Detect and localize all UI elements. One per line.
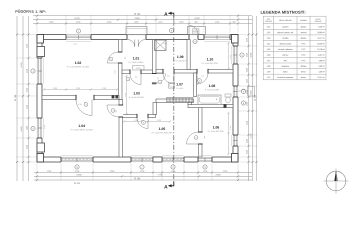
svg-text:P ± 0,000 DLAŽBA: P ± 0,000 DLAŽBA <box>128 61 144 64</box>
entrance opening top wall <box>127 34 146 40</box>
svg-text:PVC: PVC <box>302 48 307 51</box>
svg-text:obývací pokoj s KK: obývací pokoj s KK <box>277 31 294 34</box>
window bottom wall room 1.05 right <box>162 156 184 162</box>
svg-text:1.09: 1.09 <box>177 55 184 59</box>
svg-text:2 600: 2 600 <box>215 21 220 24</box>
extension lines bottom <box>37 164 238 181</box>
svg-text:P ± 0,000 PVC POD.: P ± 0,000 PVC POD. <box>208 130 225 133</box>
svg-text:8 100: 8 100 <box>74 17 80 20</box>
svg-text:20 100: 20 100 <box>134 177 141 180</box>
north compass <box>326 171 346 191</box>
right dimension line 3 <box>256 16 258 181</box>
svg-text:1 800: 1 800 <box>246 53 249 57</box>
top dimension line 3 <box>33 22 252 24</box>
toilet <box>225 94 231 97</box>
svg-text:1.01: 1.01 <box>133 56 140 60</box>
svg-text:8 200: 8 200 <box>194 17 200 20</box>
interior wall V6 hall jog <box>153 103 157 115</box>
svg-text:13,47 m²: 13,47 m² <box>317 76 325 79</box>
svg-text:4 050: 4 050 <box>250 53 253 58</box>
interior wall H2 hall bottom <box>123 115 156 118</box>
interior wall V4 between 1.07 and 1.08 <box>194 73 197 97</box>
window left wall room 1.02 <box>36 58 42 84</box>
interior wall H5 below 1.07 <box>156 99 194 103</box>
chimney blocks <box>112 95 115 98</box>
interior wall V3 between 1.09 and 1.10 <box>187 40 190 70</box>
svg-text:1.04: 1.04 <box>267 42 271 45</box>
svg-text:3 800: 3 800 <box>134 17 140 20</box>
svg-text:2 350: 2 350 <box>26 44 29 48</box>
inner dimension line room 1.05 <box>124 121 170 123</box>
svg-text:4,06 m²: 4,06 m² <box>318 59 325 62</box>
svg-text:6,32 m²: 6,32 m² <box>318 26 325 29</box>
svg-text:6 150: 6 150 <box>20 63 23 68</box>
svg-text:3 200: 3 200 <box>75 170 80 173</box>
top dimension line 2 <box>33 19 252 21</box>
svg-text:1: 1 <box>110 58 111 61</box>
hatched shaft room 1.09 <box>155 40 167 50</box>
svg-text:20,30 m²: 20,30 m² <box>317 42 325 45</box>
svg-text:obývací pokoj: obývací pokoj <box>280 42 292 45</box>
window right wall room 1.06 <box>232 135 238 146</box>
svg-text:1: 1 <box>85 103 86 106</box>
exterior unit right wall <box>248 87 255 97</box>
svg-text:1 900: 1 900 <box>134 21 139 24</box>
window right wall room 1.10 <box>232 46 238 64</box>
svg-text:6 600: 6 600 <box>20 127 23 132</box>
door tags <box>109 57 113 61</box>
svg-text:1 500: 1 500 <box>179 21 184 24</box>
svg-text:název místnosti: název místnosti <box>279 19 292 22</box>
svg-text:1.04: 1.04 <box>78 124 85 128</box>
svg-text:P ± 0,000 KERAM. DLAŽBA: P ± 0,000 KERAM. DLAŽBA <box>67 65 90 68</box>
svg-text:7 700: 7 700 <box>157 173 163 176</box>
svg-text:A: A <box>164 12 168 18</box>
window bottom wall room 1.05 left <box>131 156 153 162</box>
svg-text:12 750: 12 750 <box>14 94 17 101</box>
extension lines left <box>16 35 36 163</box>
outer wall right <box>233 35 238 163</box>
door swing into 1.08 <box>197 73 208 84</box>
svg-text:1: 1 <box>127 78 128 81</box>
svg-text:beton: beton <box>301 76 306 79</box>
svg-text:chodba: chodba <box>282 37 289 40</box>
radiator hatch on wall H5 <box>167 98 193 102</box>
svg-text:1.06: 1.06 <box>213 125 220 129</box>
svg-text:1 150: 1 150 <box>158 21 163 24</box>
window bottom wall room 1.06 <box>198 156 212 162</box>
washbasin 1.08 <box>197 77 199 85</box>
entrance porch landing <box>126 27 147 35</box>
svg-text:4,36 m²: 4,36 m² <box>318 70 325 73</box>
interior wall H3 bottom of 1.01 <box>122 70 153 74</box>
interior wall V5b between 1.04 and 1.05 <box>119 100 123 158</box>
svg-text:P -0,010: P -0,010 <box>176 87 183 90</box>
svg-text:P ± 0,000 BET.: P ± 0,000 BET. <box>174 59 186 62</box>
svg-text:1: 1 <box>195 136 196 139</box>
svg-text:1: 1 <box>199 79 200 82</box>
svg-text:1 200: 1 200 <box>26 88 29 92</box>
extension lines right <box>239 35 258 163</box>
svg-text:1.02: 1.02 <box>75 61 82 65</box>
svg-text:1 150: 1 150 <box>246 38 249 42</box>
svg-text:místnosti: místnosti <box>315 20 322 23</box>
svg-text:2 200: 2 200 <box>140 170 145 173</box>
door swing into 1.05 <box>137 118 148 129</box>
outer wall bottom <box>37 157 238 162</box>
left dimension line 1 <box>16 16 18 181</box>
svg-text:P -0,010 DLAŽBA: P -0,010 DLAŽBA <box>205 88 220 91</box>
svg-text:1.06: 1.06 <box>267 54 271 57</box>
window top wall room 1.02 <box>66 34 91 40</box>
svg-text:1.10: 1.10 <box>207 57 214 61</box>
svg-text:1.10: 1.10 <box>267 76 271 79</box>
svg-text:PVC: PVC <box>302 59 307 62</box>
bathtub <box>198 95 221 104</box>
svg-text:20 100: 20 100 <box>134 13 141 16</box>
svg-text:1 100: 1 100 <box>246 90 249 94</box>
svg-text:P ± 0,000 KERAM. DLAŽBA: P ± 0,000 KERAM. DLAŽBA <box>71 128 94 131</box>
window top wall room 1.10 <box>204 34 230 40</box>
entrance double door swing <box>128 40 135 47</box>
window tags <box>76 29 80 33</box>
door swing into room 1.02 <box>108 52 119 63</box>
washbasin 1.07 <box>168 83 174 89</box>
svg-text:1 100: 1 100 <box>246 68 249 72</box>
interior wall V2 right of 1.01 <box>153 40 157 85</box>
svg-text:2 200: 2 200 <box>171 170 176 173</box>
svg-text:3 900: 3 900 <box>215 173 221 176</box>
inner dimension line room 1.10 <box>228 43 230 69</box>
svg-text:LEGENDA MÍSTNOSTÍ:: LEGENDA MÍSTNOSTÍ: <box>260 10 305 15</box>
svg-text:1 400: 1 400 <box>203 170 208 173</box>
svg-text:11,27 m²: 11,27 m² <box>318 54 326 57</box>
svg-text:10,17 m²: 10,17 m² <box>317 37 325 40</box>
svg-text:12 750: 12 750 <box>254 94 257 101</box>
interior wall V7 left of bathtub <box>188 103 192 105</box>
interior wall V1 between 1.02 and 1.01/1.03 <box>119 40 123 100</box>
svg-text:kuchyň s jídelnou: kuchyň s jídelnou <box>278 48 293 51</box>
svg-text:1 100: 1 100 <box>246 150 249 154</box>
svg-text:1 100: 1 100 <box>246 79 249 83</box>
svg-text:1: 1 <box>159 81 160 84</box>
svg-text:28,60 m²: 28,60 m² <box>317 31 325 34</box>
right dimension line 1 <box>248 16 250 181</box>
inner dimension line room 1.02 <box>44 89 117 91</box>
svg-text:zádveří: zádveří <box>282 26 289 29</box>
svg-text:1: 1 <box>112 109 113 112</box>
svg-text:5 100: 5 100 <box>250 134 253 139</box>
svg-text:1.07: 1.07 <box>176 82 183 86</box>
svg-text:3 600: 3 600 <box>250 91 253 96</box>
svg-text:PVC: PVC <box>302 54 307 57</box>
svg-text:P ± 0,000 DLAŽBA: P ± 0,000 DLAŽBA <box>129 96 145 99</box>
terrace door bottom wall room 1.04 <box>61 156 93 162</box>
svg-text:8 500: 8 500 <box>76 173 82 176</box>
left dimension line 3 <box>28 16 30 181</box>
svg-text:3 800: 3 800 <box>110 170 115 173</box>
extension lines top <box>37 15 238 33</box>
svg-text:1.05: 1.05 <box>267 48 271 51</box>
inner dimension line hallway <box>126 76 128 114</box>
svg-text:1.08: 1.08 <box>267 65 271 68</box>
outer wall top <box>37 35 238 40</box>
svg-text:1.07: 1.07 <box>267 59 271 62</box>
svg-text:P ± 0,000 PVC POD.: P ± 0,000 PVC POD. <box>202 62 219 65</box>
inner dimension line room 1.06 <box>228 113 230 154</box>
svg-text:1 900: 1 900 <box>26 145 29 149</box>
svg-text:1.05: 1.05 <box>159 127 166 131</box>
svg-text:2 600: 2 600 <box>223 170 228 173</box>
svg-text:2 500: 2 500 <box>76 21 81 24</box>
svg-text:20 100: 20 100 <box>74 182 80 185</box>
svg-text:900: 900 <box>194 21 197 24</box>
door swing into 1.05 from 1.06 <box>187 132 199 144</box>
bottom dimension line 2 <box>34 175 252 177</box>
svg-text:2 400: 2 400 <box>246 121 249 125</box>
shoe cabinet room 1.01 <box>133 66 145 71</box>
door swing 1.01 to hall <box>130 74 141 85</box>
svg-text:beton: beton <box>301 70 306 73</box>
back door exterior steps <box>188 27 206 35</box>
svg-text:místnosti: místnosti <box>265 20 272 23</box>
svg-text:21,18 m²: 21,18 m² <box>317 48 325 51</box>
svg-text:laminát: laminát <box>300 31 307 34</box>
left wall pier upper <box>37 47 45 57</box>
section line A-A <box>173 18 175 182</box>
svg-text:1.02: 1.02 <box>267 31 271 34</box>
svg-text:2 200: 2 200 <box>26 105 29 109</box>
interior wall H1 between 1.02 and 1.04 <box>42 96 119 100</box>
svg-text:3 600: 3 600 <box>107 21 112 24</box>
door swing into 1.07 <box>163 73 174 84</box>
svg-text:1: 1 <box>143 121 144 124</box>
svg-text:dlažba: dlažba <box>301 26 308 29</box>
bottom wall pier <box>153 157 162 162</box>
svg-text:1.03: 1.03 <box>133 91 140 95</box>
svg-text:1.03: 1.03 <box>267 37 271 40</box>
top dimension line 1 <box>33 15 252 17</box>
window right wall bathroom <box>232 86 238 97</box>
bottom dimension line 1 <box>34 172 252 174</box>
corner piers <box>37 35 44 44</box>
svg-text:2 600: 2 600 <box>26 69 29 73</box>
svg-text:1.01: 1.01 <box>267 26 271 29</box>
legend table grid <box>263 16 326 80</box>
svg-text:800: 800 <box>232 21 235 24</box>
interior wall H4 below rooms 1.09 1.10 <box>156 70 233 74</box>
svg-text:PVC: PVC <box>302 42 307 45</box>
svg-text:5,62 m²: 5,62 m² <box>318 65 325 68</box>
svg-text:ložnice: ložnice <box>282 54 288 57</box>
svg-text:1 100: 1 100 <box>246 139 249 143</box>
svg-text:1.09: 1.09 <box>267 70 271 73</box>
svg-text:dlažba: dlažba <box>301 65 308 68</box>
interior wall H6 below bathroom <box>188 104 233 107</box>
interior wall V5 between 1.05 and 1.06 <box>199 108 203 157</box>
svg-text:1.08: 1.08 <box>209 84 216 88</box>
svg-text:dlažba: dlažba <box>301 37 308 40</box>
left wall pier lower <box>37 143 45 152</box>
window left wall room 1.04 <box>36 118 42 138</box>
window mullions and sills <box>78 35 80 39</box>
bottom dimension line 3 <box>34 179 252 181</box>
back door opening top wall <box>189 34 198 40</box>
svg-text:2 000: 2 000 <box>26 126 29 130</box>
svg-text:A: A <box>164 184 168 190</box>
right dimension line 2 <box>252 16 254 181</box>
door swing into 1.04 <box>76 100 92 116</box>
left dimension line 2 <box>22 16 24 181</box>
svg-text:koupelna: koupelna <box>282 65 291 68</box>
svg-text:1 950: 1 950 <box>49 21 54 24</box>
svg-text:1 400: 1 400 <box>246 102 249 106</box>
door swing into 1.04b <box>107 105 119 117</box>
outer wall left <box>37 35 42 163</box>
svg-text:technická místnost: technická místnost <box>278 76 294 79</box>
svg-text:1 050: 1 050 <box>47 170 52 173</box>
svg-text:P ± 0,000 PVC PODLAHA: P ± 0,000 PVC PODLAHA <box>152 131 174 134</box>
svg-text:podlaha: podlaha <box>300 19 306 22</box>
svg-text:PŮDORYS 1. NP:: PŮDORYS 1. NP: <box>15 9 46 14</box>
